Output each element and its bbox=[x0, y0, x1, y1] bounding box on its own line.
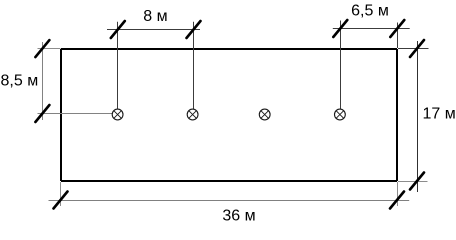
dimension line 8,5 m vertical bbox=[42, 42, 44, 120]
dimension line 17 m vertical bbox=[417, 41, 419, 192]
extension line below bottom-right corner bbox=[397, 182, 399, 206]
svg-text:8 м: 8 м bbox=[143, 8, 167, 25]
tick 6,5 m right bbox=[390, 20, 404, 37]
svg-text:17 м: 17 м bbox=[423, 106, 456, 123]
svg-text:6,5 м: 6,5 м bbox=[351, 3, 389, 20]
svg-text:8,5 м: 8,5 м bbox=[1, 73, 39, 90]
extension line top-right (to 17 m dim) bbox=[398, 48, 429, 50]
svg-text:36 м: 36 м bbox=[222, 208, 255, 225]
tick 6,5 m left bbox=[333, 20, 347, 37]
tick 8,5 m top bbox=[35, 40, 49, 57]
lamp 4 bbox=[335, 109, 346, 120]
dimension line 8 m bbox=[107, 29, 200, 31]
tick 36 m left bbox=[54, 192, 68, 209]
dimension line 6,5 m bbox=[333, 28, 410, 30]
tick 8,5 m bottom bbox=[35, 105, 49, 122]
extension line bottom-right (to 17 m dim) bbox=[398, 181, 428, 183]
tick 36 m right bbox=[390, 192, 404, 209]
extension line top-left (to 8,5 m dim) bbox=[38, 48, 61, 50]
extension line lamp row left bbox=[38, 113, 113, 115]
extension line below bottom-left corner bbox=[60, 182, 62, 206]
tick 8 m left bbox=[111, 21, 125, 38]
lamp 3 bbox=[259, 109, 270, 120]
tick 17 m top bbox=[410, 40, 424, 57]
tick 17 m bottom bbox=[410, 173, 424, 190]
extension line above lamp 1 bbox=[117, 22, 119, 110]
extension line above lamp 4 bbox=[340, 21, 342, 110]
extension line above lamp 2 bbox=[193, 22, 195, 110]
dimension line 36 m bbox=[49, 200, 410, 202]
lamp 2 bbox=[187, 109, 198, 120]
room rectangle walls bbox=[61, 49, 397, 181]
lamp 1 bbox=[112, 109, 123, 120]
tick 8 m right bbox=[187, 21, 201, 38]
extension line above right wall bbox=[397, 23, 399, 49]
